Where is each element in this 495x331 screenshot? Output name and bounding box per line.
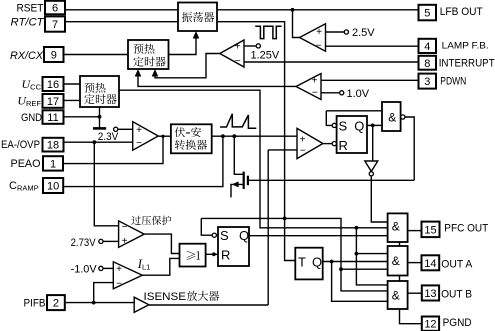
- svg-text:EA-/OVP: EA-/OVP: [1, 139, 40, 151]
- svg-text:GND: GND: [21, 112, 42, 124]
- svg-text:LAMP F.B.: LAMP F.B.: [442, 40, 489, 51]
- svg-text:−: −: [235, 56, 241, 67]
- svg-text:LFB OUT: LFB OUT: [440, 6, 483, 18]
- svg-text:2.5V: 2.5V: [352, 27, 375, 39]
- svg-text:7: 7: [52, 19, 58, 31]
- svg-text:13: 13: [424, 288, 436, 300]
- svg-text:Q: Q: [239, 228, 249, 243]
- svg-text:S: S: [339, 118, 348, 133]
- svg-text:2.3V: 2.3V: [98, 131, 119, 143]
- svg-text:PIFB: PIFB: [24, 297, 46, 309]
- svg-text:−: −: [300, 146, 306, 157]
- svg-text:1: 1: [50, 158, 56, 170]
- svg-text:3: 3: [424, 76, 430, 88]
- svg-text:T: T: [298, 255, 306, 270]
- svg-text:+: +: [122, 236, 128, 247]
- svg-text:INTERRUPT: INTERRUPT: [439, 57, 495, 69]
- svg-text:&: &: [388, 110, 396, 124]
- svg-text:16: 16: [47, 79, 59, 91]
- svg-text:+: +: [316, 27, 322, 38]
- svg-text:1.0V: 1.0V: [347, 88, 370, 100]
- svg-text:14: 14: [424, 258, 436, 270]
- svg-text:10: 10: [47, 181, 59, 193]
- svg-text:2.73V: 2.73V: [71, 237, 97, 249]
- svg-text:+: +: [136, 125, 142, 136]
- svg-text:2: 2: [53, 298, 59, 310]
- svg-text:−: −: [316, 40, 322, 51]
- svg-text:5: 5: [424, 8, 430, 20]
- svg-text:+: +: [300, 134, 306, 145]
- svg-text:12: 12: [424, 319, 436, 331]
- svg-text:+: +: [116, 264, 122, 275]
- svg-text:Q: Q: [354, 118, 364, 133]
- svg-text:Q: Q: [312, 255, 322, 270]
- svg-text:-1.0V: -1.0V: [71, 263, 98, 275]
- svg-text:&: &: [392, 219, 400, 233]
- svg-text:−: −: [116, 278, 122, 289]
- svg-text:&: &: [392, 288, 400, 302]
- svg-text:4: 4: [424, 41, 430, 53]
- svg-text:ISENSE: ISENSE: [144, 291, 187, 303]
- svg-text:R: R: [339, 138, 348, 153]
- svg-text:17: 17: [47, 96, 59, 108]
- svg-text:9: 9: [51, 50, 57, 62]
- svg-text:−: −: [122, 222, 128, 233]
- svg-text:RX/CX: RX/CX: [10, 50, 44, 62]
- svg-text:8: 8: [424, 58, 430, 70]
- svg-text:18: 18: [47, 140, 59, 152]
- svg-text:6: 6: [52, 3, 58, 15]
- svg-text:+: +: [312, 76, 318, 87]
- svg-text:1.25V: 1.25V: [251, 50, 280, 62]
- svg-text:PGND: PGND: [443, 317, 472, 329]
- svg-text:RSET: RSET: [17, 2, 44, 14]
- svg-text:&: &: [392, 254, 400, 268]
- svg-text:OUT B: OUT B: [441, 289, 472, 301]
- svg-text:−: −: [312, 87, 318, 98]
- svg-text:S: S: [220, 228, 229, 243]
- svg-text:+: +: [235, 42, 241, 53]
- svg-text:15: 15: [424, 224, 436, 236]
- svg-text:PEAO: PEAO: [11, 158, 41, 170]
- svg-text:11: 11: [47, 112, 58, 124]
- svg-text:PDWN: PDWN: [440, 76, 466, 88]
- svg-text:RT/CT: RT/CT: [11, 17, 45, 29]
- svg-text:PFC OUT: PFC OUT: [444, 222, 488, 234]
- svg-text:R: R: [221, 247, 230, 262]
- svg-text:−: −: [136, 138, 142, 149]
- svg-text:OUT A: OUT A: [441, 258, 473, 270]
